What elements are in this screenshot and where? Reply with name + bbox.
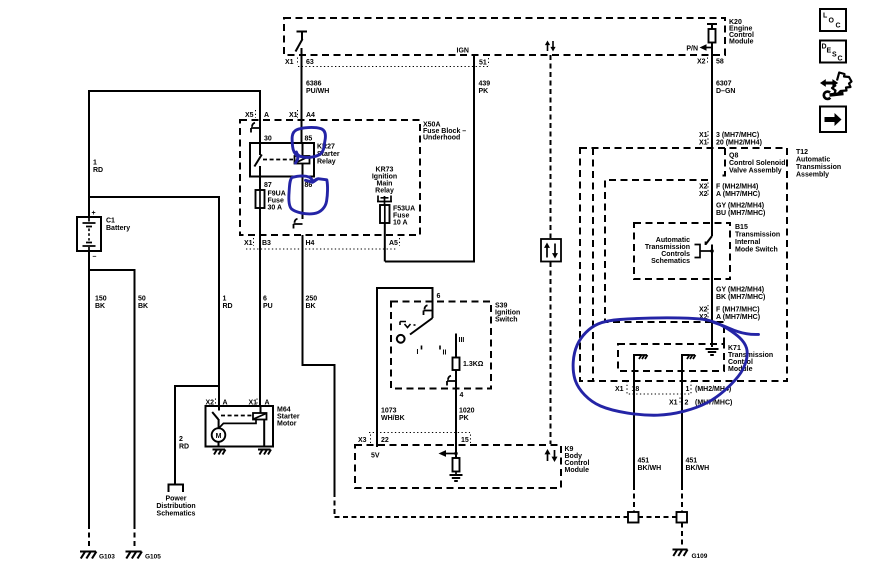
wire battery negative 150 BK to G103 <box>89 251 107 549</box>
TCM internal ground left <box>634 355 648 371</box>
pin X2 A starter label <box>206 399 228 407</box>
wire 6307 D-GN from K20 to transmission <box>712 43 735 237</box>
starter motor M64 <box>206 406 274 447</box>
pin X2 58 of K20 <box>697 58 724 66</box>
svg-text:X1: X1 <box>699 140 708 147</box>
svg-text:Schematics: Schematics <box>651 258 690 265</box>
svg-text:85: 85 <box>305 136 313 143</box>
svg-text:BK/WH: BK/WH <box>638 465 662 472</box>
svg-text:F (MH2/MH4): F (MH2/MH4) <box>716 184 758 191</box>
svg-text:1: 1 <box>686 386 690 393</box>
svg-text:451: 451 <box>638 458 650 465</box>
svg-text:WH/BK: WH/BK <box>381 415 405 422</box>
connector X3 dotted link 22 to 15 <box>369 432 470 434</box>
icon LOC box <box>820 9 846 31</box>
starter motor ground <box>213 450 226 455</box>
svg-text:F (MH7/MHC): F (MH7/MHC) <box>716 307 760 314</box>
svg-text:1.3KΩ: 1.3KΩ <box>463 361 484 368</box>
svg-text:RD: RD <box>223 303 233 310</box>
fuse F53UA 10A <box>380 205 390 223</box>
F9UA label <box>268 191 286 212</box>
svg-text:O: O <box>829 18 835 25</box>
svg-text:KR27: KR27 <box>317 144 335 151</box>
BCM pull-down resistor <box>453 458 460 472</box>
svg-text:Controls: Controls <box>661 251 690 258</box>
wire 250 BK relay 86 ground path <box>303 235 335 517</box>
svg-text:Relay: Relay <box>375 188 394 195</box>
svg-text:Transmission: Transmission <box>735 232 780 239</box>
svg-text:50: 50 <box>138 296 146 303</box>
module box X50A Fuse Block Underhood <box>240 120 420 235</box>
svg-text:10 A: 10 A <box>393 220 408 227</box>
svg-text:X1: X1 <box>615 386 624 393</box>
relay KR27 Starter Relay <box>250 143 314 177</box>
KR73 Ignition Main Relay label <box>372 167 397 195</box>
svg-text:Schematics: Schematics <box>157 511 196 518</box>
serial data up-down arrows inside K20 <box>545 41 556 52</box>
splice square right <box>677 512 688 523</box>
ground G109 <box>673 550 708 561</box>
pin X1 18 label <box>615 386 639 393</box>
svg-text:Battery: Battery <box>106 225 130 232</box>
svg-text:Automatic: Automatic <box>656 237 690 244</box>
svg-text:Valve Assembly: Valve Assembly <box>729 168 782 175</box>
svg-text:Control: Control <box>728 359 753 366</box>
Power Distribution Schematics label <box>156 496 195 518</box>
svg-text:Module: Module <box>565 467 590 474</box>
svg-text:G109: G109 <box>692 553 708 560</box>
KR73 relay output symbol <box>377 196 392 206</box>
svg-text:K71: K71 <box>728 345 741 352</box>
svg-text:63: 63 <box>306 59 314 66</box>
svg-text:D–GN: D–GN <box>716 88 735 95</box>
svg-text:F53UA: F53UA <box>393 206 415 213</box>
module box B15 Transmission Internal Mode Switch <box>634 223 730 279</box>
svg-text:Transmission: Transmission <box>796 164 841 171</box>
off-page bracket automatic transmission controls <box>695 245 713 258</box>
svg-text:A5: A5 <box>389 240 398 247</box>
svg-text:PU: PU <box>263 303 273 310</box>
BCM sense arrow <box>439 450 458 457</box>
X50A label <box>423 122 466 142</box>
module box K20 Engine Control Module <box>284 18 725 55</box>
splice square left <box>628 512 639 523</box>
svg-text:PK: PK <box>459 415 469 422</box>
T12 label <box>796 149 841 179</box>
svg-text:Ignition: Ignition <box>372 174 397 181</box>
svg-text:Fuse: Fuse <box>268 198 284 205</box>
K71 label <box>728 345 773 373</box>
svg-text:4: 4 <box>460 392 464 399</box>
wire relay 86 to H4 <box>302 177 304 220</box>
svg-text:RD: RD <box>93 167 103 174</box>
svg-text:51: 51 <box>479 60 487 67</box>
svg-text:BU (MH7/MHC): BU (MH7/MHC) <box>716 210 765 217</box>
svg-text:3 (MH7/MHC): 3 (MH7/MHC) <box>716 132 759 139</box>
svg-text:Control Solenoid: Control Solenoid <box>729 160 785 167</box>
S39 Ignition Switch box <box>391 302 491 389</box>
svg-text:BK/WH: BK/WH <box>686 465 710 472</box>
position II tick <box>440 346 446 357</box>
svg-text:RD: RD <box>179 444 189 451</box>
ignition detent glyph <box>400 322 416 328</box>
svg-text:B15: B15 <box>735 224 748 231</box>
svg-text:P/N: P/N <box>686 46 698 53</box>
pin X3 22 label <box>358 435 389 445</box>
Q8 label <box>729 153 785 175</box>
pin X2 F X2 A labels lower <box>699 305 760 321</box>
off-page bracket power distribution <box>169 485 184 493</box>
wire color label GY BK <box>716 287 765 302</box>
svg-text:Switch: Switch <box>495 317 518 324</box>
svg-text:H4: H4 <box>306 240 315 247</box>
svg-text:C: C <box>838 56 843 63</box>
ignition switch blade and rotor <box>397 318 433 343</box>
ground G105 <box>126 552 162 561</box>
svg-text:E: E <box>827 48 832 55</box>
Q8 box partial right edge <box>719 148 725 176</box>
starter solenoid ground <box>258 450 271 455</box>
ground bus dashed line to splices <box>335 516 678 518</box>
svg-text:X2: X2 <box>699 191 708 198</box>
position I tick <box>417 346 422 357</box>
wire 1020 PK ignition switch to BCM <box>456 389 475 459</box>
terminal above ignition switch pin 4 <box>447 370 456 389</box>
terminal at relay 30 feed <box>251 123 260 133</box>
wire 6 PU fuse F9UA to starter solenoid <box>260 208 273 406</box>
Q8 box left edge <box>592 148 594 381</box>
TCM earth ground <box>706 349 719 355</box>
svg-text:1: 1 <box>93 160 97 167</box>
svg-text:Assembly: Assembly <box>796 172 829 179</box>
pin A5 label <box>389 238 400 247</box>
battery label C1 <box>106 218 130 233</box>
S39 label <box>495 303 520 324</box>
svg-text:30 A: 30 A <box>268 205 283 212</box>
connector X1 dotted box pins 18 and 1 <box>627 381 691 394</box>
svg-text:Automatic: Automatic <box>796 157 830 164</box>
svg-text:2: 2 <box>685 400 689 407</box>
svg-text:PK: PK <box>479 88 489 95</box>
svg-text:A (MH7/MHC): A (MH7/MHC) <box>716 191 760 198</box>
svg-text:A (MH7/MHC): A (MH7/MHC) <box>716 314 760 321</box>
svg-text:Transmission: Transmission <box>728 352 773 359</box>
svg-text:X3: X3 <box>358 437 367 444</box>
boxed serial data connector arrows <box>541 239 561 262</box>
svg-text:BK: BK <box>306 303 316 310</box>
svg-text:X2: X2 <box>697 59 706 66</box>
BCM internal ground <box>450 472 463 482</box>
module box T12 Automatic Transmission Assembly <box>580 148 787 381</box>
svg-text:G105: G105 <box>145 554 161 561</box>
svg-text:B3: B3 <box>262 240 271 247</box>
svg-text:X2: X2 <box>699 307 708 314</box>
svg-text:2: 2 <box>179 436 183 443</box>
inner control solenoid box edges <box>605 180 724 344</box>
wire color label GY BU <box>716 203 765 218</box>
svg-text:Starter: Starter <box>277 414 300 421</box>
svg-text:6: 6 <box>263 296 267 303</box>
svg-text:1020: 1020 <box>459 408 475 415</box>
svg-text:X1: X1 <box>244 240 253 247</box>
svg-text:X1: X1 <box>285 59 294 66</box>
svg-text:Motor: Motor <box>277 421 297 428</box>
svg-text:22: 22 <box>381 437 389 444</box>
icon DESC box <box>820 41 846 63</box>
wire 451 BK/WH right <box>682 371 709 512</box>
svg-text:III: III <box>459 337 465 344</box>
connector X1 dotted link B3 H4 A5 <box>246 248 397 250</box>
svg-text:87: 87 <box>264 182 272 189</box>
module box K71 Transmission Control Module <box>618 344 724 371</box>
svg-text:15: 15 <box>461 437 469 444</box>
serial data dashed line K20 to BCM <box>550 55 552 444</box>
icon forward arrow box <box>820 107 846 133</box>
svg-text:M64: M64 <box>277 407 291 414</box>
wire battery positive to relay pin 30 <box>89 91 260 217</box>
blue annotation blob around pin 86 <box>289 176 328 214</box>
svg-text:Internal: Internal <box>735 239 760 246</box>
svg-text:Control: Control <box>565 460 590 467</box>
svg-text:X5: X5 <box>245 112 254 119</box>
svg-text:1073: 1073 <box>381 408 397 415</box>
pin X1 2 label <box>669 398 732 407</box>
svg-text:A: A <box>264 112 269 119</box>
svg-text:Ignition: Ignition <box>495 310 520 317</box>
svg-text:Relay: Relay <box>317 159 336 166</box>
svg-text:C1: C1 <box>106 218 115 225</box>
svg-text:L: L <box>823 13 828 20</box>
svg-text:M: M <box>216 433 222 440</box>
svg-text:Q8: Q8 <box>729 153 738 160</box>
TCM internal ground right <box>682 355 696 371</box>
wire label 1 RD starter feed <box>223 296 233 311</box>
pin X5 A label <box>245 110 269 119</box>
svg-text:Power: Power <box>165 496 186 503</box>
svg-text:Underhood: Underhood <box>423 135 460 142</box>
wire 6386 PU/WH from K20 to KR27 pin 85 <box>302 48 330 143</box>
svg-text:30: 30 <box>264 136 272 143</box>
ground G103 <box>80 552 115 561</box>
wire fuse F53UA to A5 and IGN <box>384 223 386 262</box>
svg-text:Transmission: Transmission <box>645 244 690 251</box>
svg-text:250: 250 <box>306 296 318 303</box>
svg-text:IGN: IGN <box>457 48 469 55</box>
wire 50 BK branch to G105 <box>89 270 148 549</box>
svg-text:T12: T12 <box>796 149 808 156</box>
wire 451 BK/WH left <box>634 371 661 512</box>
svg-text:II: II <box>443 350 447 357</box>
svg-text:Module: Module <box>729 39 754 46</box>
svg-text:GY (MH2/MH4): GY (MH2/MH4) <box>716 287 764 294</box>
terminal on 86 wire <box>294 219 303 229</box>
svg-text:I: I <box>417 349 419 356</box>
blue annotation ellipse around TCM <box>573 318 758 415</box>
wire label 1 RD battery feed <box>93 160 103 175</box>
pin X2 F X2 A labels upper <box>699 183 760 199</box>
svg-text:X1: X1 <box>699 132 708 139</box>
blue annotation loop around pin 85 <box>292 127 325 163</box>
KR27 label <box>317 144 340 166</box>
svg-text:X2: X2 <box>699 184 708 191</box>
svg-text:F9UA: F9UA <box>268 191 286 198</box>
svg-text:150: 150 <box>95 296 107 303</box>
fuse F9UA 30A <box>256 177 265 209</box>
mode switch blade <box>706 236 714 279</box>
svg-text:GY (MH2/MH4): GY (MH2/MH4) <box>716 203 764 210</box>
svg-text:5V: 5V <box>371 453 380 460</box>
svg-text:439: 439 <box>479 81 491 88</box>
svg-text:K9: K9 <box>565 446 574 453</box>
svg-text:C: C <box>836 23 841 30</box>
svg-text:Main: Main <box>377 181 393 188</box>
svg-text:BK: BK <box>138 303 148 310</box>
F53UA label <box>393 206 415 227</box>
icon electrical repair arrow and wrench <box>820 73 852 99</box>
svg-text:18: 18 <box>632 386 640 393</box>
battery C1 <box>77 210 101 261</box>
serial data arrows inside BCM <box>545 449 558 462</box>
connector X1 dotted link 63 to 51 <box>298 66 488 68</box>
svg-text:Mode Switch: Mode Switch <box>735 247 778 254</box>
svg-text:58: 58 <box>716 59 724 66</box>
dashed drop to G109 <box>681 523 683 548</box>
wire mode switch to TCM ground <box>711 279 713 347</box>
B15 label <box>735 224 780 254</box>
K9 label <box>565 446 590 474</box>
pin X1 A4 label <box>289 110 315 119</box>
Automatic Transmission Controls Schematics label <box>645 237 690 265</box>
resistor 1.3K in ignition switch <box>453 334 484 371</box>
svg-text:Distribution: Distribution <box>156 503 195 510</box>
svg-text:BK (MH7/MHC): BK (MH7/MHC) <box>716 294 765 301</box>
pin X1 A starter label <box>249 399 270 407</box>
wire 1073 WH/BK BCM to ignition switch pin 6 <box>377 288 433 447</box>
switch to battery symbol inside K20 <box>296 32 308 52</box>
svg-text:–: – <box>93 254 97 261</box>
svg-text:KR73: KR73 <box>376 167 394 174</box>
svg-text:X1: X1 <box>289 112 298 119</box>
svg-text:6307: 6307 <box>716 81 732 88</box>
svg-text:G103: G103 <box>99 554 115 561</box>
module box K9 Body Control Module <box>355 445 561 488</box>
wire 439 PK from IGN pin 51 to fuse F53UA <box>385 55 490 262</box>
wire battery positive branch to starter <box>89 197 219 406</box>
svg-text:+: + <box>92 210 96 217</box>
svg-text:451: 451 <box>686 458 698 465</box>
svg-text:S39: S39 <box>495 303 508 310</box>
svg-text:PU/WH: PU/WH <box>306 88 329 95</box>
pin X1 3 X1 20 labels <box>699 131 762 147</box>
resistor inside K20 (crank request) <box>707 24 717 43</box>
terminal at ignition switch pin 6 <box>424 302 433 319</box>
pin 15 label <box>461 435 471 445</box>
svg-text:X1: X1 <box>669 400 678 407</box>
svg-text:A4: A4 <box>306 112 315 119</box>
svg-text:6: 6 <box>437 293 441 300</box>
svg-text:20 (MH2/MH4): 20 (MH2/MH4) <box>716 140 762 147</box>
svg-text:Body: Body <box>565 453 583 460</box>
P/N arrow inside K20 <box>686 44 712 52</box>
pin X1 B3 label <box>244 238 271 247</box>
K20 label <box>729 19 754 46</box>
pin 1 label <box>686 386 732 393</box>
svg-text:1: 1 <box>223 296 227 303</box>
pin 51 IGN of K20 <box>457 48 489 67</box>
svg-text:6386: 6386 <box>306 81 322 88</box>
M64 label <box>277 407 300 428</box>
svg-text:Fuse: Fuse <box>393 213 409 220</box>
svg-text:BK: BK <box>95 303 105 310</box>
svg-text:S: S <box>832 52 837 59</box>
pin X1 63 of K20 <box>285 58 314 67</box>
wire 2 RD to power distribution <box>175 386 219 485</box>
